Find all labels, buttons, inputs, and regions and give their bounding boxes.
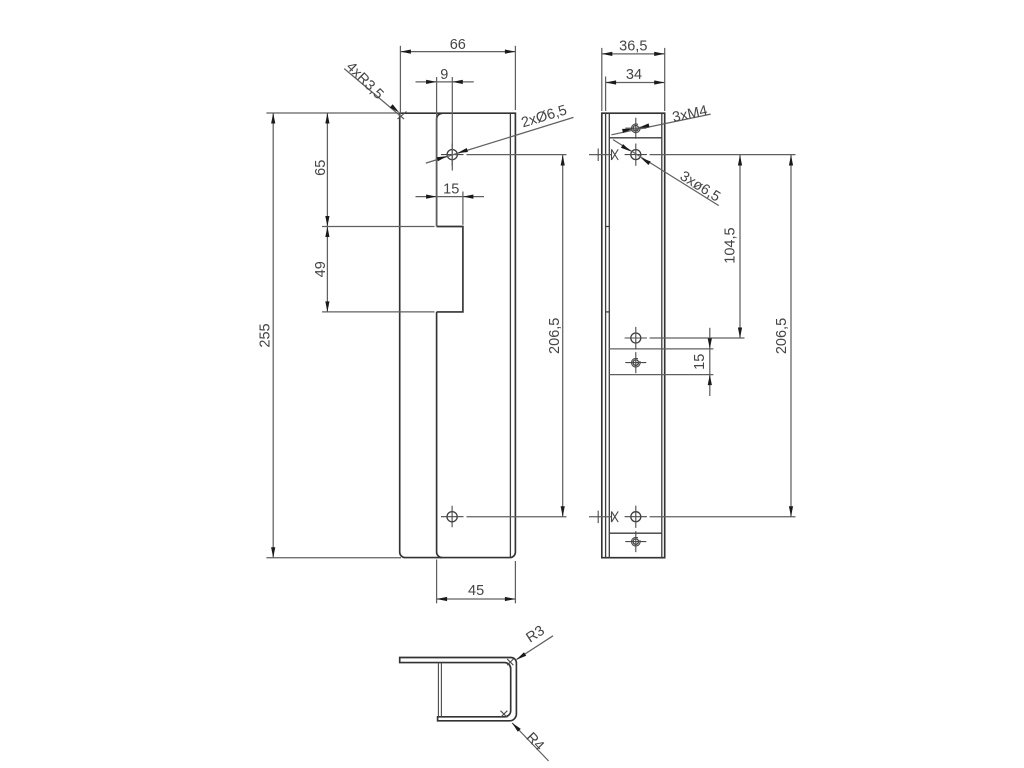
- hole 6.5 bottom: [631, 512, 641, 522]
- leader 3x6.5 arrows: [621, 144, 632, 153]
- notch extension bottom: [322, 311, 435, 313]
- dim 104.5 line: [739, 155, 741, 338]
- dim 206.5 right line: [790, 155, 792, 517]
- dim 45 arrows: [437, 597, 448, 601]
- dim 255 extension top: [266, 112, 400, 114]
- dim 206.5 left line: [562, 155, 564, 517]
- svg-text:45: 45: [468, 583, 484, 599]
- dim 206.5 right arrows: [789, 155, 793, 166]
- hole bottom 6.5: [447, 512, 457, 522]
- hole 6.5 top: [631, 150, 641, 160]
- slot line mid upper: [609, 348, 713, 350]
- dim 15 arrows outside: [426, 195, 437, 199]
- dim 34 ext left: [605, 77, 607, 112]
- dim 15 ext right: [462, 192, 464, 225]
- dim 104.5 arrows: [738, 155, 742, 166]
- row1 left mark line: [589, 154, 612, 156]
- dim 15 side arrows outside: [708, 338, 712, 349]
- svg-text:206,5: 206,5: [774, 318, 790, 354]
- hole M4 top: [633, 126, 638, 131]
- svg-text:65: 65: [313, 160, 329, 176]
- svg-text:4xR3,5: 4xR3,5: [343, 59, 387, 103]
- leader R3 line: [517, 636, 554, 660]
- leader R4 line: [512, 723, 548, 761]
- dim 255 arrows: [271, 113, 275, 124]
- dim 34 line: [606, 82, 665, 84]
- section inner double line b: [440, 663, 442, 717]
- leader 3x6.5 line: [613, 140, 719, 206]
- dim 65 arrows: [325, 113, 329, 124]
- row3 extension right: [650, 516, 796, 518]
- svg-text:3xø6,5: 3xø6,5: [677, 168, 723, 205]
- svg-text:255: 255: [257, 323, 273, 347]
- row3 bowtie: [612, 511, 619, 522]
- inner edge line top: [609, 137, 662, 139]
- dim 36.5 ext right: [664, 48, 666, 111]
- dim 15 side line: [709, 328, 711, 396]
- section inner double line a: [437, 663, 439, 717]
- dim 49 arrows: [325, 227, 329, 238]
- dim 9 ext left / notch edge extension: [436, 77, 438, 227]
- dim 36.5 ext left: [601, 48, 603, 111]
- row3 tick: [597, 511, 599, 523]
- side outline 36.5x255: [602, 113, 665, 558]
- row1 bowtie: [612, 149, 619, 160]
- thickness line: [605, 113, 607, 558]
- dim 9 arrows outside: [426, 80, 437, 84]
- dim 65/49 line: [326, 113, 328, 312]
- svg-text:66: 66: [450, 37, 466, 53]
- dim 255 line: [272, 113, 274, 558]
- dim 34 arrows: [606, 80, 617, 84]
- hole bottom crosshair: [441, 506, 464, 528]
- hole bottom extension to 206.5: [467, 516, 567, 518]
- leader 2x6.5 line: [426, 117, 574, 163]
- dim 9 line: [416, 81, 474, 83]
- svg-text:49: 49: [313, 261, 329, 277]
- svg-text:104,5: 104,5: [723, 227, 739, 263]
- svg-text:36,5: 36,5: [619, 38, 647, 54]
- dim 45 line: [437, 598, 516, 600]
- leader R3 arrow: [515, 652, 526, 661]
- bend tangent left: [608, 113, 610, 558]
- dim 36.5 arrows: [602, 52, 613, 56]
- leader R4 cross: [501, 711, 508, 718]
- dim 36.5 line: [602, 53, 665, 55]
- hole M4 mid: [633, 360, 638, 365]
- dim 15 line: [416, 196, 485, 198]
- bend line right edge: [509, 114, 511, 558]
- hole top crosshair: [441, 144, 464, 166]
- leader 4xR3.5 cross: [398, 112, 407, 120]
- notch tick top: [606, 226, 610, 228]
- front leg edge lower with fillet: [437, 312, 443, 558]
- notch tick bottom: [606, 311, 610, 313]
- plate outline 66x255 rounded corners: [400, 113, 516, 557]
- leader 4xR3.5 line: [344, 69, 404, 119]
- leader 3xM4 line: [611, 114, 710, 135]
- front leg edge upper with fillet: [437, 113, 443, 226]
- svg-text:9: 9: [440, 67, 448, 83]
- dim 206.5 left arrows: [561, 155, 565, 166]
- leader 3xM4 arrows: [638, 123, 649, 129]
- svg-text:15: 15: [443, 182, 459, 198]
- centerline hole top: [451, 77, 453, 171]
- svg-text:R3: R3: [523, 623, 547, 647]
- row1 extension right: [650, 154, 796, 156]
- svg-text:3xM4: 3xM4: [671, 103, 709, 126]
- SIDE VIEW: [589, 38, 796, 557]
- svg-text:206,5: 206,5: [547, 318, 563, 354]
- notch 15x49: [437, 227, 463, 312]
- dim 45 ext right: [514, 561, 516, 603]
- dim 45 ext left: [436, 560, 438, 604]
- leader 4xR3.5 arrow: [390, 104, 401, 114]
- dim 255 extension bottom: [266, 557, 401, 559]
- FRONT VIEW: [257, 37, 573, 603]
- leader 2x6.5 arrows: [457, 148, 468, 155]
- svg-text:34: 34: [626, 67, 642, 83]
- hole top 6.5: [447, 150, 457, 160]
- SECTION VIEW: [400, 623, 553, 761]
- slot line mid lower: [609, 374, 713, 376]
- dim 66 line: [400, 51, 515, 53]
- hole 6.5 mid: [631, 333, 641, 343]
- section profile: [400, 658, 517, 721]
- dim 66 ext right: [514, 46, 516, 110]
- svg-text:R4: R4: [523, 730, 547, 754]
- bend tangent right: [661, 113, 663, 558]
- hole top extension to 206.5: [467, 154, 567, 156]
- row2 extension right: [650, 337, 745, 339]
- dim 66 ext left: [399, 46, 401, 114]
- dim 66 arrows: [400, 50, 411, 54]
- inner edge line bottom: [609, 532, 662, 534]
- leader R4 arrow: [510, 721, 520, 731]
- notch extension top: [322, 226, 435, 228]
- row1 tick: [597, 149, 599, 162]
- leader R3 cross: [507, 659, 513, 665]
- row3 left mark line: [589, 516, 612, 518]
- svg-text:15: 15: [692, 354, 708, 370]
- hole M4 bottom: [633, 539, 638, 544]
